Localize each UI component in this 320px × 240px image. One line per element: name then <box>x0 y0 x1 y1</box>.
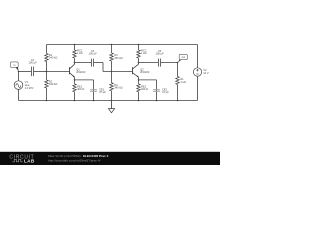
svg-text:out: out <box>182 56 186 59</box>
svg-text:340 kΩ: 340 kΩ <box>114 56 122 60</box>
svg-text:1 kΩ: 1 kΩ <box>141 51 147 55</box>
svg-text:400 Ω: 400 Ω <box>141 87 148 91</box>
svg-text:340 kΩ: 340 kΩ <box>49 82 57 86</box>
svg-text:47 µF: 47 µF <box>162 90 169 94</box>
svg-text:100 µF: 100 µF <box>155 52 164 56</box>
svg-text:1 kΩ: 1 kΩ <box>180 80 186 84</box>
svg-text:47 µF: 47 µF <box>99 90 106 94</box>
svg-text:LAB: LAB <box>24 159 35 164</box>
svg-text:1 kΩ: 1 kΩ <box>77 51 83 55</box>
svg-text:340 kΩ: 340 kΩ <box>114 86 122 90</box>
svg-text:100 µF: 100 µF <box>28 61 37 65</box>
svg-text:400 Ω: 400 Ω <box>77 87 84 91</box>
svg-text:http://circuitlab.com/c/e59ea5: http://circuitlab.com/c/e59ea57/prac-4/ <box>48 159 101 163</box>
svg-text:340 kΩ: 340 kΩ <box>49 56 57 60</box>
svg-text:1.0 kHz: 1.0 kHz <box>25 86 35 90</box>
svg-text:2N2222: 2N2222 <box>140 70 150 74</box>
svg-text:100 µF: 100 µF <box>88 52 97 56</box>
svg-text:12 V: 12 V <box>203 71 209 75</box>
svg-text:2N2222: 2N2222 <box>76 70 86 74</box>
svg-text:Mike Smith (mks70062) : ELEC24: Mike Smith (mks70062) : ELEC2400 Prac 4 <box>48 154 109 158</box>
